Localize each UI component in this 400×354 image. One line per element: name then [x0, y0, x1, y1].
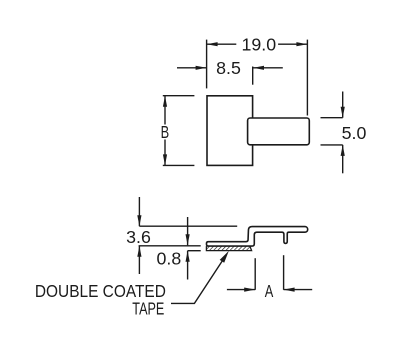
dim 8.5 extension line right	[252, 67, 254, 85]
svg-text:0.8: 0.8	[157, 248, 182, 268]
dim B arrow up	[163, 96, 167, 107]
dim 5.0 extension line bottom	[321, 144, 343, 146]
svg-text:A: A	[265, 282, 274, 302]
dim 5.0 extension line top	[321, 117, 343, 119]
svg-text:TAPE: TAPE	[132, 299, 164, 319]
side view metal profile	[207, 227, 308, 247]
dim B line upper	[164, 96, 166, 125]
dim 5.0 arrow top	[342, 92, 344, 118]
dim 3.6 extension line top	[139, 225, 237, 227]
dim A extension line left	[254, 258, 256, 290]
dim 3.6 arrow bottom	[138, 246, 140, 274]
top view body	[207, 96, 253, 166]
dim 0.8 arrow bottom	[187, 251, 189, 280]
dim 19.0 line left segment	[207, 43, 237, 45]
dim A arrow right	[284, 289, 313, 291]
dim 19.0 arrow right	[296, 42, 307, 46]
dim 8.5 arrow left	[177, 67, 207, 69]
dim 19.0 arrow left	[207, 42, 218, 46]
dim 19.0 extension line right	[306, 40, 308, 116]
svg-text:8.5: 8.5	[216, 58, 241, 78]
dim 3.6 / 0.8 shared extension line	[139, 245, 201, 247]
dim B extension line bottom	[163, 164, 195, 166]
svg-text:3.6: 3.6	[126, 227, 151, 247]
top view tab	[248, 118, 310, 145]
dim 8.5 arrow right	[253, 67, 283, 69]
dim 19.0 extension line left	[206, 40, 208, 89]
dim B line lower	[164, 140, 166, 166]
svg-text:19.0: 19.0	[241, 35, 276, 55]
dim B arrow down	[163, 154, 167, 165]
leader arrowhead	[220, 251, 229, 263]
svg-text:5.0: 5.0	[342, 123, 367, 143]
dim B extension line top	[163, 95, 195, 97]
dim 19.0 line right segment	[278, 43, 307, 45]
leader line	[171, 260, 223, 303]
tape (hatched)	[206, 246, 251, 251]
dim 0.8 extension line bottom	[188, 250, 201, 252]
svg-text:B: B	[161, 123, 170, 143]
dim 3.6 arrow top	[138, 197, 140, 226]
dim 5.0 arrow bottom	[342, 145, 344, 173]
dim A extension line right	[283, 255, 285, 290]
dim 0.8 arrow top	[187, 217, 189, 245]
dim A arrow left	[227, 289, 255, 291]
